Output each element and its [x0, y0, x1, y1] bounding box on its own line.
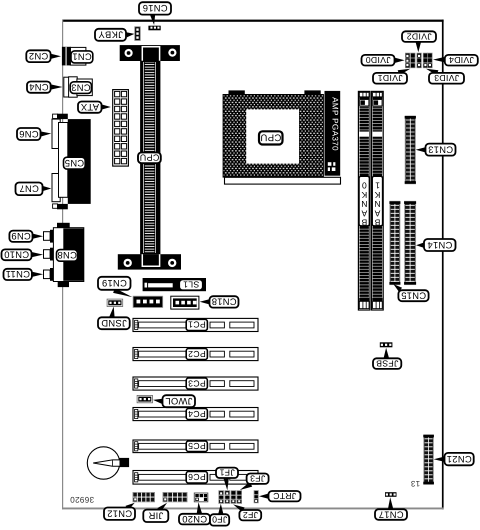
svg-text:CN11: CN11: [5, 269, 29, 280]
svg-text:JKBY: JKBY: [98, 30, 123, 41]
label JVID3: [429, 73, 464, 84]
svg-text:JVID3: JVID3: [434, 73, 459, 83]
slot SL1 bar: [143, 278, 206, 291]
I/O stack top piece: [53, 114, 68, 119]
jumper JFSB: [380, 342, 393, 347]
board outline bottom edge: [62, 508, 444, 510]
CPU slot top key bracket: [142, 47, 159, 61]
leader JFSB: [384, 348, 389, 358]
CPU slot bottom bracket bar: [118, 254, 181, 269]
mounting hole top-left: [125, 49, 133, 57]
jumper CN17: [385, 492, 397, 497]
label CN10: [2, 249, 32, 260]
label JVID0: [362, 55, 395, 66]
leader JF0: [218, 504, 223, 514]
connector CN20: [194, 493, 208, 502]
label CPU-socket: [259, 131, 283, 144]
slot PC6: [133, 471, 258, 485]
label JKBY: [95, 29, 126, 41]
socket side strip AMP PGA370: [325, 91, 341, 176]
label PC6: [186, 471, 207, 483]
connector CN6 top bracket: [52, 119, 60, 148]
CPU slot top bracket bar: [120, 45, 180, 61]
svg-text:PC5: PC5: [188, 441, 206, 451]
label JVID4: [445, 55, 478, 66]
connector CN18: [171, 296, 199, 309]
svg-text:CN9: CN9: [11, 231, 31, 242]
leader CN14: [416, 243, 424, 248]
label JSND: [98, 317, 130, 329]
label PC3: [186, 378, 207, 389]
svg-text:JF3: JF3: [250, 474, 265, 484]
label JVID1: [373, 73, 407, 84]
board outline left edge: [62, 20, 63, 510]
svg-text:CN21: CN21: [447, 454, 472, 465]
svg-text:CN10: CN10: [4, 250, 29, 261]
connector CN1 (stacked PS/2): [62, 47, 86, 66]
svg-text:PC6: PC6: [188, 472, 206, 482]
svg-text:CN2: CN2: [29, 51, 49, 62]
CPU slot bottom key bracket: [142, 254, 159, 266]
label PC4: [186, 408, 207, 419]
label CN11: [4, 269, 32, 280]
leader JRTC: [259, 494, 268, 499]
jumper JWOL: [137, 395, 152, 402]
label CN4: [27, 82, 51, 93]
label CN3: [70, 82, 91, 94]
board outline top edge: [62, 20, 444, 22]
connector JKBY: [135, 27, 140, 41]
label PC1: [186, 319, 207, 330]
leader CN20: [197, 502, 202, 513]
CPU slot body: [140, 61, 160, 254]
leader CN6: [40, 131, 51, 136]
svg-text:AMP PGA370: AMP PGA370: [330, 97, 339, 151]
label CN21: [445, 453, 474, 465]
jumper block JVID: [405, 53, 432, 68]
svg-text:JVID2: JVID2: [406, 31, 431, 41]
leader CN7: [43, 186, 52, 191]
svg-text:CN4: CN4: [29, 82, 49, 93]
socket bottom bar: [225, 177, 341, 184]
label CN17: [375, 509, 407, 520]
svg-text:1: 1: [375, 181, 380, 191]
label CN1: [71, 51, 93, 63]
svg-text:CN15: CN15: [401, 291, 426, 302]
label JF3: [247, 474, 269, 484]
connector CN21: [423, 435, 434, 485]
slot PC5: [133, 440, 258, 453]
label CN7: [16, 183, 43, 196]
leader JVID0: [395, 58, 405, 63]
label BANK1: [372, 176, 382, 227]
label JFSB: [373, 358, 401, 369]
connector JIR: [163, 493, 187, 502]
svg-text:JIR: JIR: [148, 511, 163, 522]
leader JVID2: [416, 43, 421, 53]
board outline right edge: [442, 20, 444, 510]
slot PC1: [133, 318, 258, 331]
mounting hole bottom-right: [168, 259, 176, 267]
leader CN15: [393, 284, 402, 292]
connector CN8 block: [53, 223, 83, 287]
label CN16: [139, 2, 171, 14]
svg-text:CN6: CN6: [19, 129, 39, 140]
connector CN3: [64, 77, 93, 97]
svg-text:CPU: CPU: [139, 153, 159, 163]
svg-text:CN17: CN17: [378, 509, 403, 520]
label CN20: [179, 514, 210, 525]
svg-text:JVID1: JVID1: [377, 73, 402, 83]
jack CN11: [44, 268, 54, 281]
svg-text:JWOL: JWOL: [165, 396, 192, 407]
svg-text:PC1: PC1: [188, 320, 206, 330]
label JWOL: [163, 395, 196, 407]
I/O stack white strip: [59, 123, 68, 198]
svg-text:JFSB: JFSB: [376, 358, 398, 368]
leader JIR: [157, 503, 167, 512]
svg-text:CN14: CN14: [427, 240, 452, 251]
label CN19: [98, 277, 131, 290]
label CN2: [26, 50, 50, 62]
svg-text:SL1: SL1: [183, 280, 199, 290]
I/O stack bottom piece: [53, 204, 68, 209]
label CPU-slot: [138, 152, 161, 163]
svg-text:JRTC: JRTC: [273, 491, 296, 501]
jumper JSND: [107, 299, 123, 306]
connector ATX power: [113, 90, 129, 167]
label PC2: [186, 348, 207, 359]
connector CN12: [133, 493, 155, 502]
socket top tab left: [229, 90, 245, 94]
leader CN4: [51, 84, 63, 89]
svg-text:JVID0: JVID0: [365, 55, 390, 65]
svg-text:JF1: JF1: [219, 468, 234, 478]
connector CN5 body: [68, 119, 91, 204]
leader JF1: [224, 478, 229, 490]
leader CN18: [200, 299, 210, 304]
label JVID2: [402, 31, 436, 42]
connector CN19: [133, 296, 163, 307]
DIMM slot BANK0 lower part: [359, 227, 369, 309]
leader CN13: [416, 147, 426, 152]
svg-text:PC3: PC3: [188, 378, 206, 388]
jack CN9: [44, 230, 54, 243]
leader CN10: [32, 252, 43, 257]
leader ATX: [102, 104, 111, 109]
label CN8: [57, 250, 78, 262]
label CN13: [426, 144, 456, 156]
label CN5: [64, 157, 86, 169]
slot PC2: [133, 348, 258, 361]
label CN9: [9, 231, 32, 242]
mounting hole top-right: [168, 49, 176, 57]
svg-text:13: 13: [410, 479, 420, 488]
connector CN13: [405, 116, 416, 184]
svg-text:CN3: CN3: [71, 82, 91, 93]
leader JVID4: [433, 57, 444, 62]
leader CN11: [32, 272, 43, 277]
leader CN17: [388, 497, 393, 509]
CPU socket PGA370: [223, 95, 323, 178]
label JF0: [210, 514, 229, 525]
svg-text:JSND: JSND: [101, 318, 127, 329]
jumper block JF0/JF1/JF2/JF3: [219, 491, 242, 504]
svg-text:CN20: CN20: [182, 514, 207, 525]
label CN18: [210, 296, 239, 307]
connector CN14: [404, 201, 416, 284]
DIMM slot BANK1 lower part: [372, 227, 382, 309]
svg-text:36920: 36920: [70, 495, 94, 504]
jumper JRTC pins: [254, 491, 258, 503]
svg-text:CN5: CN5: [65, 158, 85, 169]
socket top tab right: [304, 90, 320, 94]
label JIR: [143, 510, 168, 522]
svg-text:CN1: CN1: [72, 52, 92, 63]
slot PC3: [133, 377, 258, 390]
label ATX: [78, 102, 102, 113]
label CN15: [398, 290, 428, 301]
svg-text:0: 0: [362, 181, 367, 191]
svg-text:JF0: JF0: [212, 515, 227, 525]
jack CN10: [44, 248, 54, 261]
leader CN19: [113, 288, 132, 297]
leader CN16: [150, 14, 155, 25]
connector CN7 bottom bracket: [52, 174, 60, 202]
svg-text:PC4: PC4: [188, 409, 206, 419]
svg-text:PC2: PC2: [188, 349, 206, 359]
label SL1: [179, 279, 202, 290]
label CN12: [104, 508, 135, 520]
leader JF2: [233, 504, 245, 512]
leader JF3: [240, 482, 252, 490]
connector CN16: [148, 26, 160, 31]
svg-text:CN12: CN12: [107, 509, 132, 520]
svg-text:JVID4: JVID4: [449, 55, 474, 65]
label CN14: [424, 239, 456, 251]
label BANK0: [359, 176, 369, 227]
svg-text:JF2: JF2: [243, 510, 258, 520]
mounting hole bottom-left: [124, 259, 132, 267]
battery: [87, 447, 129, 479]
leader JVID3: [426, 69, 438, 76]
svg-text:CN7: CN7: [19, 184, 39, 195]
connector CN15: [389, 201, 400, 284]
label JF2: [239, 510, 261, 520]
leader CN9: [33, 234, 43, 239]
leader CN21: [434, 457, 445, 462]
leader JWOL: [153, 399, 163, 404]
label PC5: [186, 441, 207, 452]
svg-text:CN13: CN13: [428, 144, 453, 155]
label JRTC: [269, 491, 301, 501]
slot PC4: [133, 408, 258, 421]
DIMM slot BANK0: [358, 91, 370, 310]
leader CN2: [51, 54, 61, 59]
leader CN12: [126, 503, 135, 510]
svg-text:CN19: CN19: [102, 278, 127, 289]
label CN6: [17, 128, 41, 140]
svg-text:CPU: CPU: [260, 132, 281, 143]
label JF1: [216, 468, 238, 478]
svg-text:CN18: CN18: [211, 297, 236, 308]
svg-text:ATX: ATX: [80, 102, 99, 113]
leader JSND: [109, 307, 114, 318]
DIMM slot BANK1: [372, 91, 384, 310]
svg-text:CN16: CN16: [142, 3, 167, 14]
leader JKBY: [126, 32, 134, 37]
svg-text:CN8: CN8: [57, 250, 77, 261]
leader JVID1: [398, 69, 411, 76]
